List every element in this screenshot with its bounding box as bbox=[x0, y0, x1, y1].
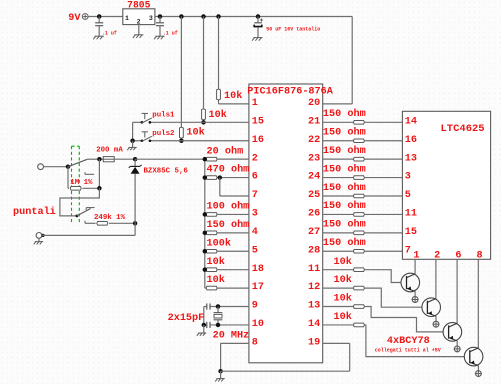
svg-text:3: 3 bbox=[149, 15, 153, 22]
svg-text:1: 1 bbox=[252, 98, 258, 109]
svg-text:10: 10 bbox=[252, 319, 264, 330]
resistor R1M 1M 1% bbox=[68, 167, 99, 190]
svg-text:10k: 10k bbox=[334, 256, 352, 268]
pushbutton puls1 bbox=[141, 112, 175, 124]
svg-text:2: 2 bbox=[252, 153, 258, 164]
junction at C2 bbox=[158, 14, 163, 19]
zener D1 BZX85C 5,6 bbox=[129, 159, 189, 223]
wire pin 13 to Q3 base bbox=[364, 307, 443, 332]
resistor 150 ohm row pin 4 bbox=[203, 219, 250, 235]
junction 470ohm right bbox=[218, 175, 223, 180]
capacitor CX1 15pF bbox=[207, 303, 210, 309]
ground under crystal caps bbox=[197, 333, 207, 336]
svg-text:470 ohm: 470 ohm bbox=[207, 164, 250, 176]
svg-text:.1 uf: .1 uf bbox=[102, 31, 117, 37]
resistor 150 ohm pin 22 to LTC pin 16 bbox=[323, 127, 403, 143]
driver U3 LTC4625 bbox=[402, 111, 490, 261]
fuse F1 200 mA bbox=[96, 147, 123, 162]
transistor Q1 BCY78 bbox=[401, 273, 420, 292]
svg-text:collegati tutti al +5V: collegati tutti al +5V bbox=[375, 348, 441, 354]
wire probe+ to switch bbox=[44, 166, 69, 168]
svg-text:17: 17 bbox=[252, 282, 264, 293]
svg-text:1M 1%: 1M 1% bbox=[70, 179, 93, 187]
junction rail x203 bbox=[201, 14, 206, 19]
ground under pushbuttons bbox=[127, 147, 137, 150]
svg-text:10k: 10k bbox=[207, 256, 225, 268]
resistor 10k base Q4 bbox=[323, 311, 365, 327]
svg-text:20: 20 bbox=[308, 98, 320, 109]
svg-text:2: 2 bbox=[434, 251, 440, 262]
junction 1M bottom bbox=[97, 186, 102, 191]
microcontroller U1 PIC16F876-876A bbox=[247, 84, 333, 363]
wire Q2 emitter bbox=[435, 316, 437, 321]
svg-text:4xBCY78: 4xBCY78 bbox=[387, 336, 430, 347]
wire rail to R pin16 pullup bbox=[180, 17, 182, 141]
wire pin16 row bbox=[133, 140, 249, 142]
svg-text:.1 uf: .1 uf bbox=[163, 31, 178, 37]
svg-text:6: 6 bbox=[252, 172, 258, 183]
junction bottom ground bbox=[218, 369, 223, 374]
svg-text:LTC4625: LTC4625 bbox=[441, 123, 485, 135]
resistor 150 ohm pin 28 to LTC pin 7 bbox=[323, 237, 403, 253]
svg-text:BZX85C 5,6: BZX85C 5,6 bbox=[144, 168, 189, 176]
svg-text:12: 12 bbox=[308, 282, 320, 293]
junction zener top bbox=[133, 157, 138, 162]
svg-text:3: 3 bbox=[252, 209, 258, 220]
capacitor CX2 15pF bbox=[207, 322, 210, 328]
junction rail x181 bbox=[179, 14, 184, 19]
wire puls to ground bbox=[132, 141, 134, 147]
junction at C3 bbox=[256, 14, 261, 19]
svg-text:10k: 10k bbox=[207, 274, 225, 286]
wire Q1 emitter bbox=[414, 292, 416, 297]
svg-text:13: 13 bbox=[405, 153, 417, 164]
svg-text:150 ohm: 150 ohm bbox=[323, 163, 366, 175]
svg-text:16: 16 bbox=[252, 135, 264, 146]
wire LTC pin to Q1 collector bbox=[414, 259, 416, 274]
svg-text:15: 15 bbox=[405, 227, 417, 238]
svg-text:150 ohm: 150 ohm bbox=[323, 219, 366, 231]
wire switch to fuse row bbox=[87, 158, 103, 160]
wire pin9 row bbox=[204, 306, 249, 308]
resistor 150 ohm pin 23 to LTC pin 13 bbox=[323, 145, 403, 161]
switch S1a bbox=[68, 159, 94, 174]
svg-text:4: 4 bbox=[252, 227, 258, 238]
svg-text:1: 1 bbox=[413, 251, 419, 262]
label 4xBCY78 bbox=[387, 336, 430, 347]
wire ground stub bbox=[220, 371, 222, 378]
ground at probe- bbox=[34, 238, 44, 244]
switch S1b bbox=[76, 208, 95, 218]
wire Q4 emitter bbox=[477, 366, 479, 371]
transistor Q3 BCY78 bbox=[443, 323, 462, 342]
transistor Q4 BCY78 bbox=[464, 347, 483, 366]
svg-text:150 ohm: 150 ohm bbox=[207, 219, 250, 231]
svg-text:2x15pF: 2x15pF bbox=[168, 313, 205, 324]
wire fuse to zener junction bbox=[114, 158, 135, 160]
svg-text:7: 7 bbox=[252, 190, 258, 201]
svg-text:22: 22 bbox=[308, 135, 320, 146]
wire pin6 to pin7 bbox=[220, 178, 249, 196]
svg-text:11: 11 bbox=[405, 209, 417, 220]
svg-text:26: 26 bbox=[308, 209, 320, 220]
svg-text:20 ohm: 20 ohm bbox=[207, 145, 244, 157]
junction crystal top bbox=[216, 304, 221, 309]
svg-text:13: 13 bbox=[308, 301, 320, 312]
junction at C1 bbox=[97, 14, 102, 19]
ground bottom bbox=[215, 379, 225, 382]
wire zener junction to divider bus bbox=[135, 158, 205, 160]
label 20 MHz bbox=[213, 331, 250, 342]
svg-text:249k 1%: 249k 1% bbox=[94, 214, 126, 222]
wire caps to ground bbox=[203, 325, 205, 333]
svg-text:puls1: puls1 bbox=[152, 112, 175, 120]
terminal +5V Q4 bbox=[475, 370, 482, 377]
svg-text:8: 8 bbox=[477, 251, 483, 262]
svg-text:150 ohm: 150 ohm bbox=[323, 200, 366, 212]
svg-text:10k: 10k bbox=[334, 311, 352, 323]
svg-text:6: 6 bbox=[455, 251, 461, 262]
resistor R 10k pin16 pullup bbox=[180, 127, 205, 139]
svg-text:puls2: puls2 bbox=[152, 130, 174, 138]
junction rail x218 bbox=[216, 14, 221, 19]
junction 249k right bbox=[133, 221, 138, 226]
wire LTC pin to Q2 collector bbox=[435, 259, 437, 298]
resistor 100k row pin 5 bbox=[203, 237, 249, 253]
wire 7805 pin2 to ground bbox=[138, 25, 140, 35]
wire rail to R pin1 pullup bbox=[219, 17, 249, 104]
svg-text:100 ohm: 100 ohm bbox=[207, 201, 250, 213]
svg-text:5: 5 bbox=[252, 245, 258, 256]
label collegati tutti al +5V bbox=[375, 348, 441, 354]
svg-text:PIC16F876-876A: PIC16F876-876A bbox=[247, 86, 333, 97]
label 2x15pF bbox=[168, 313, 205, 324]
resistor 150 ohm pin 25 to LTC pin 5 bbox=[323, 182, 403, 198]
resistor 150 ohm pin 27 to LTC pin 15 bbox=[323, 219, 403, 235]
svg-text:20 MHz: 20 MHz bbox=[213, 331, 250, 342]
wire pin10 row bbox=[204, 324, 249, 326]
wire puls common vertical bbox=[132, 122, 134, 140]
resistor 100 ohm row pin 3 bbox=[203, 201, 250, 217]
junction probe+ bbox=[66, 164, 71, 169]
svg-text:27: 27 bbox=[308, 227, 320, 238]
svg-text:1: 1 bbox=[125, 15, 129, 22]
wire divider bus bbox=[204, 159, 206, 288]
resistor 10k row pin 17 bbox=[205, 274, 249, 290]
capacitor C2 .1 uf bbox=[156, 17, 178, 37]
wire Q3 emitter bbox=[456, 341, 458, 346]
resistor R249 249k 1% bbox=[85, 214, 135, 225]
wire 1M to fuse row bbox=[98, 159, 100, 188]
junction crystal bottom bbox=[216, 323, 221, 328]
pushbutton puls2 bbox=[141, 130, 175, 142]
svg-text:24: 24 bbox=[308, 172, 320, 183]
svg-text:18: 18 bbox=[252, 264, 264, 275]
resistor 10k base Q3 bbox=[323, 293, 365, 309]
svg-text:150 ohm: 150 ohm bbox=[323, 237, 366, 249]
resistor 150 ohm pin 21 to LTC pin 14 bbox=[323, 108, 403, 124]
junction puls ground bbox=[130, 138, 135, 143]
svg-text:11: 11 bbox=[308, 264, 320, 275]
svg-text:28: 28 bbox=[308, 245, 320, 256]
junction pin16 row bbox=[179, 138, 184, 143]
svg-text:10k: 10k bbox=[334, 293, 352, 305]
resistor 10k base Q1 bbox=[323, 256, 365, 272]
svg-text:3: 3 bbox=[405, 172, 411, 183]
svg-text:8: 8 bbox=[252, 337, 258, 348]
terminal +5V Q2 bbox=[433, 321, 440, 328]
capacitor C1 .1 uf bbox=[95, 17, 117, 37]
resistor 150 ohm pin 26 to LTC pin 11 bbox=[323, 200, 403, 216]
capacitor C3 50 uF 16V tantalio bbox=[254, 17, 320, 38]
terminal probe- puntali bbox=[36, 233, 45, 239]
resistor R 10k pin1 pullup bbox=[217, 89, 243, 102]
svg-text:15: 15 bbox=[252, 116, 264, 127]
wire +5V/+9V top rail bbox=[88, 17, 352, 104]
svg-text:150 ohm: 150 ohm bbox=[323, 127, 366, 139]
PIC pin numbers bbox=[252, 98, 320, 348]
svg-text:10k: 10k bbox=[209, 109, 227, 121]
terminal probe+ puntali bbox=[38, 164, 44, 170]
svg-text:25: 25 bbox=[308, 190, 320, 201]
ground under C3 bbox=[252, 38, 263, 41]
resistor 20 ohm row pin 2 bbox=[203, 145, 249, 161]
junction pin15 row bbox=[201, 120, 206, 125]
wire crystal caps left bbox=[203, 307, 205, 325]
terminal +5V Q1 bbox=[412, 296, 419, 303]
wire pin 14 to Q4 base bbox=[364, 325, 464, 357]
wire pin 11 to Q1 base bbox=[364, 270, 401, 283]
ground under C2 bbox=[154, 36, 165, 39]
wire LTC pin to Q3 collector bbox=[456, 259, 458, 323]
svg-text:16: 16 bbox=[405, 135, 417, 146]
svg-text:100k: 100k bbox=[207, 237, 231, 249]
junction caps ground bbox=[202, 323, 207, 328]
svg-text:200 mA: 200 mA bbox=[96, 147, 123, 155]
svg-text:150 ohm: 150 ohm bbox=[323, 145, 366, 157]
svg-text:10k: 10k bbox=[334, 274, 352, 286]
wire pin15 row bbox=[133, 121, 249, 123]
svg-text:14: 14 bbox=[308, 319, 320, 330]
wire pin8 to ground rail bbox=[221, 343, 249, 371]
crystal Q1 20 MHz bbox=[214, 307, 223, 325]
svg-text:7805: 7805 bbox=[127, 0, 150, 10]
wire bottom ground rail bbox=[221, 343, 350, 371]
transistor Q2 BCY78 bbox=[422, 298, 441, 317]
regulator U2 7805 bbox=[123, 0, 155, 25]
svg-text:150 ohm: 150 ohm bbox=[323, 182, 366, 194]
svg-text:puntali: puntali bbox=[13, 206, 56, 218]
label puntali bbox=[13, 206, 56, 218]
resistor 150 ohm pin 24 to LTC pin 3 bbox=[323, 163, 403, 179]
wire stair to S1b bbox=[60, 188, 100, 216]
svg-text:5: 5 bbox=[405, 190, 411, 201]
svg-text:9V: 9V bbox=[68, 13, 81, 24]
resistor 10k base Q2 bbox=[323, 274, 365, 290]
resistor 10k row pin 18 bbox=[203, 256, 249, 272]
wire probe- row bbox=[42, 223, 135, 235]
wire rail to R pin15 pullup bbox=[203, 17, 205, 123]
junction 1M top bbox=[97, 157, 102, 162]
terminal +5V Q3 bbox=[454, 345, 461, 352]
ground under C1 bbox=[93, 36, 104, 39]
svg-text:150 ohm: 150 ohm bbox=[323, 108, 366, 120]
resistor R 10k pin15 pullup bbox=[202, 109, 227, 121]
resistor 470 ohm row pin 6 bbox=[203, 164, 250, 180]
svg-text:21: 21 bbox=[308, 116, 320, 127]
svg-text:9: 9 bbox=[252, 301, 258, 312]
svg-text:2: 2 bbox=[137, 18, 141, 25]
ground under 7805 bbox=[133, 35, 144, 38]
svg-text:10k: 10k bbox=[186, 127, 204, 139]
terminal 9V input bbox=[68, 13, 88, 24]
wire pin 12 to Q2 base bbox=[364, 288, 422, 307]
svg-text:23: 23 bbox=[308, 153, 320, 164]
svg-text:50 uF 16V tantalio: 50 uF 16V tantalio bbox=[266, 27, 320, 33]
svg-text:14: 14 bbox=[405, 116, 417, 127]
svg-text:19: 19 bbox=[308, 337, 320, 348]
wire LTC pin to Q4 collector bbox=[477, 259, 479, 348]
ganged switch link bbox=[72, 146, 80, 224]
svg-text:10k: 10k bbox=[224, 90, 242, 102]
svg-text:7: 7 bbox=[405, 245, 411, 256]
